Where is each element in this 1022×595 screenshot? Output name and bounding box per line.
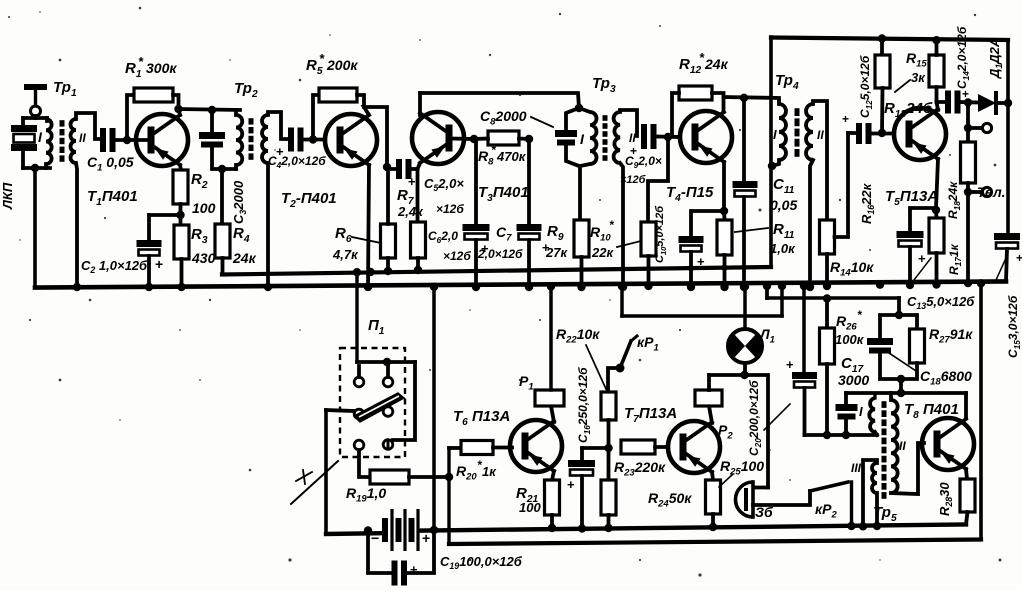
svg-text:С6​2,0: С6​2,0 [428, 229, 458, 245]
svg-text:С9​2,0×: С9​2,0× [625, 154, 662, 170]
svg-text:×12б: ×12б [443, 249, 471, 263]
svg-text:С5​2,0×: С5​2,0× [424, 176, 464, 193]
svg-text:+: + [276, 144, 284, 159]
svg-text:+: + [542, 240, 550, 255]
svg-text:300к: 300к [146, 60, 177, 76]
svg-text:100: 100 [519, 500, 541, 515]
svg-text:430: 430 [191, 250, 216, 266]
svg-text:II: II [629, 131, 636, 145]
svg-text:100к: 100к [835, 332, 865, 347]
svg-text:0,05: 0,05 [770, 197, 797, 213]
svg-text:1к: 1к [482, 464, 497, 479]
svg-text:Т7​П13А: Т7​П13А [624, 405, 677, 425]
svg-text:Т6​ П13А: Т6​ П13А [453, 408, 510, 428]
svg-text:Д1​Д2А: Д1​Д2А [987, 38, 1004, 79]
svg-text:×12б: ×12б [436, 202, 464, 216]
svg-text:R13​24б: R13​24б [884, 100, 933, 120]
svg-text:+: + [842, 112, 849, 126]
svg-text:2,0×12б: 2,0×12б [477, 247, 523, 261]
svg-text:+: + [1016, 251, 1022, 265]
svg-text:Зб: Зб [755, 504, 773, 520]
svg-text:470к: 470к [496, 149, 527, 164]
svg-text:2,4к: 2,4к [397, 204, 424, 219]
svg-text:+: + [410, 562, 418, 577]
svg-text:Т2​-П401: Т2​-П401 [281, 190, 337, 210]
svg-text:+: + [697, 254, 705, 269]
svg-text:II: II [79, 131, 86, 145]
svg-text:+: + [567, 477, 575, 492]
svg-text:+: + [155, 256, 163, 272]
svg-text:III: III [851, 461, 862, 475]
svg-text:+: + [962, 87, 969, 101]
svg-text:Т5​П13А: Т5​П13А [885, 188, 938, 208]
svg-text:24к: 24к [704, 56, 729, 72]
svg-text:I: I [773, 127, 777, 142]
svg-text:3000: 3000 [838, 372, 869, 388]
svg-text:С3​2000: С3​2000 [231, 180, 248, 224]
svg-text:1,0к: 1,0к [770, 241, 796, 256]
svg-text:×12б: ×12б [620, 174, 647, 186]
svg-text:Тел.: Тел. [977, 184, 1006, 200]
svg-text:II: II [899, 439, 906, 453]
svg-text:R18​24к: R18​24к [946, 181, 962, 219]
svg-text:+: + [786, 357, 794, 372]
svg-text:+: + [918, 251, 926, 266]
svg-text:22к: 22к [591, 245, 614, 260]
svg-text:+: + [422, 530, 430, 546]
svg-text:I: I [859, 404, 863, 419]
svg-text:ЛКП: ЛКП [0, 182, 15, 210]
svg-text:24к: 24к [232, 250, 257, 266]
svg-text:R16​22к: R16​22к [859, 182, 876, 224]
svg-text:4,7к: 4,7к [332, 247, 359, 262]
svg-text:II: II [817, 128, 824, 142]
svg-text:−: − [371, 530, 379, 546]
svg-text:+: + [408, 174, 416, 189]
svg-text:Т3​П401: Т3​П401 [478, 184, 529, 204]
svg-text:100: 100 [192, 200, 216, 216]
svg-text:200к: 200к [326, 57, 358, 73]
svg-text:Т8​ П401: Т8​ П401 [904, 401, 959, 421]
svg-text:3к: 3к [911, 70, 926, 85]
svg-text:Т1​П401: Т1​П401 [87, 188, 138, 208]
svg-text:Т4​-П15: Т4​-П15 [666, 184, 714, 204]
